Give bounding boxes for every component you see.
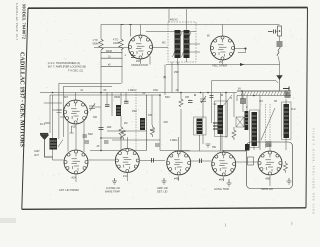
label near R2 <box>113 39 119 45</box>
chassis band top line <box>237 90 291 92</box>
wire tube tops <box>76 124 270 162</box>
label 1TO near R1 <box>93 39 99 45</box>
svg-text:50M: 50M <box>88 133 93 136</box>
svg-text:6K7: 6K7 <box>64 96 69 99</box>
svg-text:ANT: ANT <box>34 154 39 157</box>
wire R2 down <box>121 50 123 84</box>
dashed shield mid <box>136 89 147 150</box>
capacitor C18 <box>99 128 104 130</box>
trim arrow T1 secondary <box>182 32 192 57</box>
svg-text:LOOSE LID: LOOSE LID <box>106 186 120 190</box>
capacitor C12 interstage <box>155 144 160 146</box>
wire osc grid drop <box>130 25 132 37</box>
svg-text:#1D: #1D <box>71 125 76 129</box>
wire chain down <box>279 57 280 76</box>
svg-text:350: 350 <box>212 146 217 149</box>
wire below fuse <box>279 36 281 41</box>
node ant bus <box>52 92 54 94</box>
wire bottom shelf <box>59 82 121 84</box>
label gnd ant <box>34 123 45 157</box>
trim arrow T1 primary <box>173 32 183 57</box>
node band left <box>241 90 243 92</box>
choke box <box>215 101 228 137</box>
node bus d210 <box>207 92 209 94</box>
trimmer arrow ant <box>58 140 63 148</box>
capacitor C1 plate b <box>101 57 122 59</box>
wire V3 to V4 left <box>67 122 69 152</box>
switch contact <box>277 76 282 91</box>
wire drop to R2 <box>120 25 122 40</box>
capacitor C9 link <box>152 158 154 163</box>
resistor R2 <box>119 39 123 50</box>
capacitor C7 <box>105 105 110 107</box>
svg-text:2 MEG: 2 MEG <box>170 139 178 142</box>
capacitor C10 link <box>200 159 202 164</box>
wire rect bottom down <box>222 60 224 65</box>
ground under V7 <box>227 179 232 186</box>
capacitor C6 stack <box>266 142 272 146</box>
svg-text:#5B: #5B <box>266 177 271 181</box>
resistor R5 interstage <box>151 125 155 137</box>
node winding A top <box>253 95 255 97</box>
winding M1 <box>116 105 121 116</box>
svg-text:115: 115 <box>259 100 263 103</box>
resistor R8 <box>122 130 126 140</box>
T1 secondary winding <box>184 30 190 58</box>
label det lid <box>157 186 168 194</box>
svg-text:MC: MC <box>162 42 166 45</box>
tube V3 RF amp <box>64 100 88 129</box>
arrow on bus <box>240 63 244 66</box>
svg-text:SP: SP <box>274 100 278 103</box>
wires T2 <box>175 62 278 151</box>
svg-text:ANT. LID TRIMM.: ANT. LID TRIMM. <box>59 188 80 192</box>
svg-text:OSC: OSC <box>153 89 158 92</box>
node bus d196 <box>200 92 202 94</box>
ground under V5 <box>112 178 117 184</box>
capacitor C4 stack <box>240 99 246 103</box>
capacitor C13 <box>188 101 193 103</box>
wire plate link <box>94 47 129 49</box>
svg-text:.1MF: .1MF <box>106 126 112 129</box>
node c <box>100 150 102 152</box>
svg-text:B.F. T. AMPLIFIER LOCKING (B): B.F. T. AMPLIFIER LOCKING (B) <box>48 65 86 69</box>
wire mid columns <box>50 62 190 151</box>
winding A box <box>250 110 260 148</box>
wire second bus <box>146 31 196 33</box>
jack box <box>236 117 244 127</box>
node bus d181 <box>180 92 182 94</box>
trimmer arrow T2 <box>223 95 232 106</box>
svg-text:300: 300 <box>93 116 98 119</box>
wire R1 down <box>100 50 102 84</box>
resistor R3 <box>119 127 123 137</box>
label wave trap <box>105 186 120 194</box>
wire V3 to V4 right <box>83 122 85 153</box>
bottom leads <box>76 173 270 186</box>
wire osc right pin <box>153 47 169 49</box>
capacitor C11 under osc <box>131 56 136 58</box>
output choke winding <box>218 105 224 134</box>
connector plug <box>283 87 289 91</box>
svg-text:1 MEG: 1 MEG <box>128 89 136 92</box>
variable cap top <box>200 96 206 103</box>
svg-text:#6A: #6A <box>219 178 224 182</box>
inductor L1 squiggle <box>277 47 280 56</box>
svg-text:100M: 100M <box>113 42 119 45</box>
dashed core power <box>266 104 271 148</box>
svg-text:GONG TRIM: GONG TRIM <box>214 187 229 191</box>
svg-text:250M: 250M <box>114 96 120 99</box>
tube V4 <box>64 150 88 180</box>
terminal strip V7V8 <box>248 157 254 165</box>
speaker shield box <box>247 142 293 189</box>
chassis band lower line <box>237 95 291 97</box>
node band right <box>285 90 287 92</box>
trimmer bar V3 <box>70 127 74 133</box>
frame <box>28 7 308 10</box>
wire left drop to R1 <box>100 25 102 40</box>
svg-text:6V: 6V <box>238 88 241 91</box>
T2 winding a <box>197 119 203 135</box>
resistor R7 speaker <box>284 161 288 173</box>
tube V7 <box>212 152 236 182</box>
wire osc cathode down <box>140 59 142 65</box>
svg-text:MODEL 7040072: MODEL 7040072 <box>21 4 26 39</box>
power winding B <box>284 104 290 138</box>
svg-text:WAVE TRAP: WAVE TRAP <box>105 190 120 194</box>
svg-text:FLD: FLD <box>291 108 296 111</box>
T1 primary winding <box>175 30 181 58</box>
capacitor C3 stack <box>277 42 283 46</box>
tick bus a <box>121 24 133 26</box>
labels power <box>238 88 296 112</box>
antenna coil L2 <box>50 138 58 150</box>
winding B box <box>282 102 292 140</box>
smudge bottom left <box>0 218 16 223</box>
wire horizontal under rectifier <box>166 64 280 66</box>
wire rect out <box>235 49 247 53</box>
variable cap trim <box>89 104 95 111</box>
svg-text:A.V.C. TRANSFORMER (A): A.V.C. TRANSFORMER (A) <box>48 61 80 65</box>
capacitor C16 <box>83 135 88 137</box>
svg-text:DET. LID: DET. LID <box>157 190 168 194</box>
node a <box>100 137 102 139</box>
tube V6 <box>167 151 191 181</box>
svg-text:25M: 25M <box>132 110 137 113</box>
notes text block <box>48 61 86 73</box>
power winding A <box>252 112 258 146</box>
svg-text:©JOHN F. RIDER, PUBLISHER, NEW: ©JOHN F. RIDER, PUBLISHER, NEW YORK <box>312 128 315 214</box>
svg-text:500M: 500M <box>106 51 112 53</box>
mid small labels <box>44 71 233 149</box>
svg-text:50M: 50M <box>165 96 170 99</box>
svg-text:CADILLAC PAGE 12-1: CADILLAC PAGE 12-1 <box>15 3 19 40</box>
svg-text:.0004: .0004 <box>44 122 51 125</box>
wire osc top pin drop <box>140 25 142 36</box>
ground T2 <box>206 144 211 147</box>
fuse F1 <box>278 26 282 36</box>
ground right <box>287 178 292 184</box>
output transformer small winding <box>245 144 250 151</box>
diag arrow power <box>261 108 275 140</box>
wire verticals mid-right <box>222 91 286 150</box>
ground under V6 <box>162 178 167 184</box>
wire shelf 2 <box>63 85 112 87</box>
resistor R6 <box>179 99 183 107</box>
tube V8 <box>258 151 282 181</box>
svg-text:(B): (B) <box>163 76 166 79</box>
svg-text:SPKR LID: SPKR LID <box>261 187 273 191</box>
svg-text:T-4 OSC. (C): T-4 OSC. (C) <box>68 69 83 73</box>
tube V5 <box>115 149 139 179</box>
svg-text:#2A: #2A <box>72 176 77 180</box>
tube V2 rectifier <box>211 36 235 68</box>
svg-text:465: 465 <box>185 96 190 99</box>
IF transformer T2 can <box>194 117 207 135</box>
node b <box>120 137 122 139</box>
node bus d226 <box>225 92 227 94</box>
capacitor C1 plate a <box>101 52 122 54</box>
svg-text:2M: 2M <box>124 122 127 125</box>
power winding A2 <box>245 111 249 130</box>
wire T1 feeds <box>169 9 200 65</box>
chassis band hatch <box>241 91 288 96</box>
node left bus <box>100 92 102 94</box>
svg-text:#4B: #4B <box>174 177 179 181</box>
capacitor C17 <box>85 141 90 143</box>
svg-text:AMP. LID: AMP. LID <box>157 186 168 190</box>
node choke top <box>221 94 223 96</box>
tube V1 oscillator <box>129 35 153 67</box>
svg-text:465: 465 <box>148 114 153 117</box>
svg-text:MODULATOR: MODULATOR <box>132 63 148 67</box>
winding M2 <box>140 118 145 130</box>
capacitor C19 <box>104 141 109 143</box>
capacitor C14 column <box>213 123 218 129</box>
capacitor C5 stack <box>285 93 291 97</box>
capacitor C8 <box>124 101 129 103</box>
wire ant verticals <box>40 56 237 160</box>
resistor R4 <box>232 127 236 140</box>
capacitor C15 bus <box>210 96 214 98</box>
node mid bus b <box>159 94 161 96</box>
svg-text:500M: 500M <box>93 42 99 45</box>
capacitor C2 spark plate <box>268 30 278 34</box>
node rect out <box>245 48 247 50</box>
svg-text:GND: GND <box>34 150 40 153</box>
IF transformer T1 dashed can <box>168 22 196 62</box>
antenna <box>40 134 53 157</box>
resistor R1 <box>99 39 103 50</box>
wire y138 link <box>101 137 121 139</box>
node mid bus a <box>194 94 196 96</box>
svg-text:RECTIFIER: RECTIFIER <box>213 64 228 68</box>
svg-text:.006: .006 <box>163 121 168 124</box>
wire top bus <box>101 24 280 26</box>
capacitor C1 plate c <box>101 65 122 67</box>
wire rect top pin up <box>222 25 224 37</box>
